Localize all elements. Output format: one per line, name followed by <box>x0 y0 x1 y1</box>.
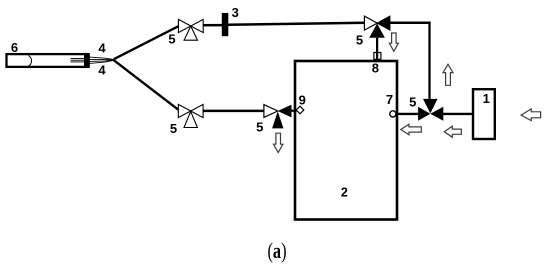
flow arrow down beside V3 <box>389 33 398 51</box>
flow arrow left between vessel 2 and V4 <box>401 124 422 135</box>
valve 5 (V3) black outlet triangle <box>377 16 390 30</box>
valve 5 (V1) bowtie <box>178 19 203 32</box>
valve 5 (V2b) black stem triangle <box>272 111 283 128</box>
svg-text:2: 2 <box>341 185 348 199</box>
port 9 (diamond on vessel 2 wall) <box>296 106 304 114</box>
flow arrow down below V2b <box>274 133 283 152</box>
flow arrow left at far right <box>521 109 541 121</box>
svg-text:6: 6 <box>11 40 18 55</box>
wire filter 3 to valve V3 <box>228 23 366 25</box>
capillary lines from tube 6 to node 4 <box>90 57 114 63</box>
svg-text:5: 5 <box>168 32 175 47</box>
port 8 (small box on vessel 2) <box>374 53 381 60</box>
wire V2b to port 9 <box>291 110 297 112</box>
svg-text:9: 9 <box>299 93 306 108</box>
svg-text:5: 5 <box>409 94 416 109</box>
valve 5 (V3) black stem triangle <box>369 24 385 38</box>
svg-text:8: 8 <box>372 61 379 76</box>
svg-text:4: 4 <box>98 62 106 77</box>
valve 5 (V2a) bowtie <box>178 104 203 117</box>
valve 5 (V2b) white inlet triangle <box>264 105 278 118</box>
tube 6 thick right end <box>84 54 90 67</box>
wire node 4 to valve V1 (upper diagonal) <box>114 26 179 59</box>
wire port 7 to valve V4 <box>397 113 419 115</box>
svg-text:(a): (a) <box>268 238 287 263</box>
valve 5 (V4) black left triangle <box>418 107 430 121</box>
svg-text:3: 3 <box>232 5 239 20</box>
wire V3 stem down to port 8 <box>376 38 378 59</box>
svg-text:7: 7 <box>386 92 393 107</box>
svg-text:5: 5 <box>256 119 263 134</box>
svg-text:4: 4 <box>98 40 106 55</box>
svg-text:5: 5 <box>356 32 363 47</box>
capillary lines inside tube 6 <box>71 59 85 62</box>
valve 5 (V4) black right triangle <box>430 107 443 121</box>
filter 3 (black bar) <box>222 13 229 36</box>
wire V4 to vessel 1 <box>443 113 474 115</box>
wire corner down to valve V4 <box>428 22 430 100</box>
vessel 1 <box>473 89 495 139</box>
flow arrow left between vessel 1 and V4 <box>444 126 461 137</box>
wire V2a to V2b <box>203 110 265 113</box>
wire V3 to top-right corner <box>390 21 431 24</box>
svg-text:5: 5 <box>170 121 177 136</box>
valve 5 (V2b) black outlet triangle <box>278 105 292 118</box>
meniscus inside tube 6 <box>28 55 31 66</box>
valve 5 (V2a) stem triangle <box>184 111 197 127</box>
valve 5 (V4) black top triangle <box>423 99 438 114</box>
port 7 (circle on vessel 2 wall) <box>390 111 396 117</box>
svg-text:1: 1 <box>483 91 490 106</box>
tube 6 (sample tube) <box>7 54 89 67</box>
vessel 2 <box>295 61 397 220</box>
wire valve V1 to filter 3 <box>202 24 223 27</box>
valve 5 (V1) stem triangle <box>184 26 197 40</box>
valve 5 (V3) white inlet triangle <box>364 16 377 30</box>
wire node 4 to valve V2a (lower diagonal) <box>114 60 179 110</box>
flow arrow up beside down-pipe <box>443 64 453 85</box>
